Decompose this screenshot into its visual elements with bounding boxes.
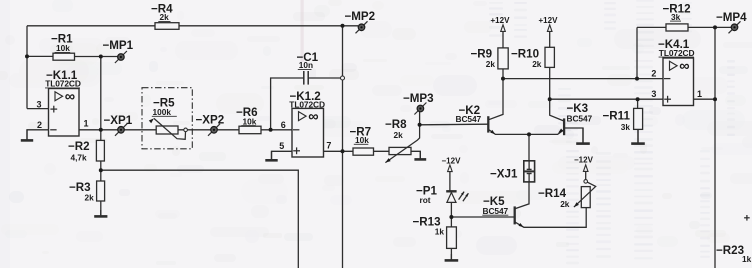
test point MP2 [341,10,376,33]
resistor R23 label (cut off at edge) [716,244,752,264]
ground [576,128,590,144]
svg-text:100k: 100k [153,107,172,117]
svg-text:2k: 2k [560,199,570,209]
wire R2/R3 node long run right and down to bottom edge [101,170,298,268]
transistor K3 BC547 [564,102,592,135]
svg-text:10k: 10k [243,116,257,126]
wire R13 to ground [450,248,452,259]
svg-text:−12V: −12V [574,155,594,164]
wire K1.2 pin7 output through R7 to R8 [324,150,412,152]
wire K3 base to ground [564,128,583,143]
svg-text:1k: 1k [435,226,445,236]
resistor R6 [236,106,261,134]
svg-text:TL072CD: TL072CD [45,79,81,89]
svg-text:−R11: −R11 [603,110,631,123]
svg-text:10k: 10k [355,135,369,145]
wire R11 branch down [637,99,639,108]
wire K1.1 pin3 input [27,108,49,110]
wire common emitters K2-K3 [488,129,564,134]
svg-text:BC547: BC547 [483,206,509,216]
junction node K4.1 output [713,25,717,29]
svg-text:1: 1 [697,89,702,99]
wire K1.2 pin5 to ground [272,151,293,159]
resistor R2 [68,140,104,163]
ground [631,129,645,143]
wire left vertical x=27 (top bus down to pin3) [26,26,28,109]
svg-text:rot: rot [420,195,431,205]
wire MP1 node down to output node [100,57,102,130]
resistor R4 [151,3,179,30]
wire K2 base [420,123,488,126]
junction node K5 base [449,215,453,219]
connector XP1 [104,114,133,136]
wire K1.1 output pin1 through XP1, R5, XP2, R6 to K1.2 pin6 [79,129,292,131]
node + marker right edge [744,217,750,219]
svg-text:2k: 2k [532,59,542,69]
svg-text:TL072CD: TL072CD [289,100,325,110]
svg-text:TL072CD: TL072CD [659,48,695,58]
potentiometer R8 [385,118,420,163]
wire K1.1 pin2 to ground [27,130,49,140]
connector XP2 [196,114,225,136]
wire K3 collector up to R10 [550,67,564,121]
wire C1 feedback left branch [271,78,304,130]
resistor R7 [350,125,374,155]
svg-text:5: 5 [279,141,284,151]
resistor R1 [51,32,75,60]
svg-text:+12V: +12V [491,16,511,25]
junction node MP3 / K2 base [418,123,422,127]
transistor K2 BC547 [456,104,489,133]
svg-text:−XP1: −XP1 [104,114,133,127]
resistor R9 [471,47,509,69]
svg-text:−MP3: −MP3 [403,92,434,105]
op-amp K1.2 TL072CD [279,90,331,157]
LED P1 rot [416,185,468,205]
wire C1 right to main vertical [309,77,343,79]
resistor R11 [603,108,643,132]
ground [94,210,107,216]
wire K5 base [451,216,514,218]
transistor K5 BC547 [482,195,514,224]
wire P1 to node and R13 [450,202,452,227]
wire R8 right to ground [411,151,420,158]
resistor R12 [663,2,691,31]
test point MP3 [403,92,434,115]
wire top bus from K1.1 input branch to MP2 [27,25,358,27]
svg-text:2k: 2k [85,193,95,203]
wire R1 right to MP1 [75,56,118,58]
wire -12V supply to R14 [585,171,587,179]
svg-text:−MP2: −MP2 [345,10,376,23]
svg-text:∞: ∞ [308,109,318,125]
svg-text:−XP2: −XP2 [196,114,225,127]
capacitor C1 [297,51,319,85]
svg-text:1: 1 [84,118,89,128]
svg-text:−MP1: −MP1 [103,39,134,52]
svg-text:2: 2 [651,69,656,79]
wire -12V supply to P1 [449,171,451,191]
wire R10 node to K4.1 pin3 [550,98,663,100]
junction node output K1.1 [25,54,29,58]
svg-text:3k: 3k [671,12,681,22]
svg-text:10n: 10n [299,60,313,70]
junction node K2 collector [501,77,505,81]
junction nodes on main vertical [341,76,345,80]
wire R9 to +12V arrow [502,31,504,48]
ground [414,151,426,159]
ground [265,151,277,160]
connector XJ1 [490,161,535,182]
resistor R10 [511,47,554,69]
potentiometer R5 in dash-dot enclosure [142,88,192,149]
svg-text:∞: ∞ [65,89,75,105]
wire R1 left branch [27,55,53,57]
wire R10 to +12V arrow [549,31,551,47]
wire R12 horizontal to MP4 [637,26,731,28]
wire emitters node down to XJ1 [528,134,530,161]
svg-text:+12V: +12V [539,16,559,25]
svg-text:2k: 2k [160,12,170,22]
potentiometer R14 [538,180,596,209]
svg-text:−R23: −R23 [716,244,745,257]
test point MP4 [716,11,747,34]
ground [21,130,33,141]
wire R9 node to K4.1 pin2 [503,78,663,80]
svg-text:3: 3 [651,89,656,99]
op-amp K1.1 TL072CD [37,69,89,136]
svg-text:−R2: −R2 [68,140,90,153]
wire R12 left vertical from pin2 wire [636,27,638,78]
svg-text:4,7k: 4,7k [71,153,88,163]
svg-text:7: 7 [326,141,331,151]
wire R2 R3 chain down [100,130,102,216]
junction node K1.2 pin6 [269,128,273,132]
svg-text:3: 3 [37,99,42,109]
wire K5 emitter to R14 bottom [515,208,586,228]
junction node K3 collector [548,97,552,101]
svg-text:2k: 2k [394,130,404,140]
svg-text:2k: 2k [486,59,496,69]
ground [445,254,459,260]
svg-text:∞: ∞ [679,59,689,75]
svg-text:2: 2 [37,120,42,130]
wire K4.1 output pin1 [694,98,716,100]
resistor R3 [69,181,105,203]
svg-text:−12V: −12V [442,156,462,165]
resistor R13 [413,216,457,249]
wire output vertical x=715 down to bottom edge [714,27,716,268]
svg-text:3k: 3k [621,122,631,132]
svg-text:BC547: BC547 [567,113,593,123]
svg-text:BC547: BC547 [456,114,482,124]
test point MP1 [103,39,134,63]
wire MP3 stub [419,112,421,125]
svg-text:6: 6 [281,120,286,130]
svg-text:1k: 1k [742,254,752,264]
op-amp K4.1 TL072CD [651,38,702,106]
junction node emitters [527,132,531,136]
wire main vertical x=342.5 (MP2 node down to bottom edge) [342,26,344,268]
svg-text:−MP4: −MP4 [716,11,747,24]
wire XJ1 to K5 collector [515,182,529,209]
junction nodes K4.1 inputs [635,77,639,81]
wire K2 collector up to R9 [488,69,503,120]
svg-text:10k: 10k [56,43,70,53]
svg-text:−XJ1: −XJ1 [490,167,518,180]
